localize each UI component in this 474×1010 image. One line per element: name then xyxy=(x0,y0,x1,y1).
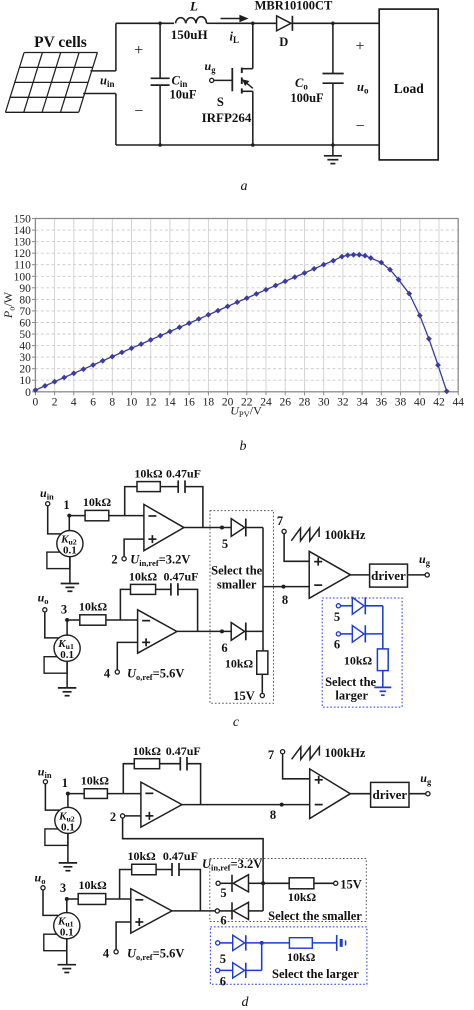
svg-text:6: 6 xyxy=(220,914,226,928)
svg-text:1: 1 xyxy=(62,776,68,790)
svg-text:0.47uF: 0.47uF xyxy=(163,849,198,863)
svg-text:0: 0 xyxy=(25,387,31,399)
svg-text:80: 80 xyxy=(19,294,31,306)
svg-text:28: 28 xyxy=(299,396,311,408)
svg-text:34: 34 xyxy=(356,396,368,408)
svg-text:40: 40 xyxy=(414,396,426,408)
svg-text:Select the: Select the xyxy=(325,675,376,689)
svg-text:D: D xyxy=(279,35,288,49)
svg-text:30: 30 xyxy=(19,352,31,364)
svg-text:Co: Co xyxy=(295,76,308,92)
svg-text:ug: ug xyxy=(420,771,432,787)
svg-text:24: 24 xyxy=(260,396,272,408)
svg-text:150: 150 xyxy=(14,214,32,226)
svg-text:0.47uF: 0.47uF xyxy=(166,744,201,758)
svg-text:6: 6 xyxy=(220,975,226,989)
svg-text:−: − xyxy=(355,118,364,135)
svg-text:110: 110 xyxy=(14,260,31,272)
svg-text:2: 2 xyxy=(111,553,117,567)
svg-text:90: 90 xyxy=(19,283,31,295)
svg-text:0.1: 0.1 xyxy=(61,821,75,833)
svg-text:0: 0 xyxy=(33,396,39,408)
svg-text:0.1: 0.1 xyxy=(63,545,77,557)
svg-text:10kΩ: 10kΩ xyxy=(288,890,317,904)
svg-text:ug: ug xyxy=(205,59,217,75)
svg-text:10kΩ: 10kΩ xyxy=(133,744,162,758)
svg-text:5: 5 xyxy=(334,610,340,624)
svg-text:10uF: 10uF xyxy=(169,88,196,102)
svg-text:c: c xyxy=(233,715,240,730)
svg-text:8: 8 xyxy=(270,808,276,822)
svg-text:2: 2 xyxy=(52,396,58,408)
svg-text:50: 50 xyxy=(19,329,31,341)
svg-text:IRFP264: IRFP264 xyxy=(202,110,252,125)
svg-text:driver: driver xyxy=(372,787,407,802)
svg-text:Uo,ref=5.6V: Uo,ref=5.6V xyxy=(127,946,184,962)
svg-text:0.1: 0.1 xyxy=(60,649,74,661)
svg-text:+: + xyxy=(134,42,143,59)
svg-text:0.47uF: 0.47uF xyxy=(163,570,198,584)
svg-text:44: 44 xyxy=(452,396,464,408)
svg-text:5: 5 xyxy=(220,952,226,966)
svg-text:130: 130 xyxy=(14,237,32,249)
svg-text:4: 4 xyxy=(104,667,111,681)
svg-text:70: 70 xyxy=(19,306,31,318)
svg-text:30: 30 xyxy=(318,396,330,408)
svg-text:14: 14 xyxy=(164,396,176,408)
svg-text:+: + xyxy=(355,38,364,55)
svg-text:10: 10 xyxy=(19,375,31,387)
svg-text:Select the: Select the xyxy=(211,564,262,578)
svg-text:15V: 15V xyxy=(233,689,255,703)
svg-text:5: 5 xyxy=(220,886,226,900)
svg-text:ug: ug xyxy=(419,552,431,568)
svg-text:−: − xyxy=(134,103,143,120)
svg-text:42: 42 xyxy=(433,396,445,408)
svg-text:10kΩ: 10kΩ xyxy=(81,774,110,788)
svg-text:4: 4 xyxy=(71,396,77,408)
svg-text:3: 3 xyxy=(61,603,67,617)
svg-text:uo: uo xyxy=(357,80,369,96)
svg-text:0.1: 0.1 xyxy=(60,927,74,939)
svg-text:26: 26 xyxy=(279,396,291,408)
svg-text:b: b xyxy=(240,439,247,454)
svg-text:100: 100 xyxy=(14,271,32,283)
svg-text:120: 120 xyxy=(14,248,32,260)
svg-text:d: d xyxy=(242,995,250,1010)
svg-text:5: 5 xyxy=(222,537,228,551)
svg-text:Uo,ref=5.6V: Uo,ref=5.6V xyxy=(127,667,184,683)
svg-text:Select the smaller: Select the smaller xyxy=(268,909,362,923)
svg-text:Uin,ref=3.2V: Uin,ref=3.2V xyxy=(202,857,262,873)
svg-text:10kΩ: 10kΩ xyxy=(78,878,107,892)
svg-text:uo: uo xyxy=(38,591,49,607)
svg-text:150uH: 150uH xyxy=(171,27,208,42)
svg-text:Select the larger: Select the larger xyxy=(272,967,359,981)
svg-text:L: L xyxy=(189,0,198,14)
svg-text:S: S xyxy=(217,95,224,109)
svg-text:36: 36 xyxy=(376,396,388,408)
svg-text:Load: Load xyxy=(394,81,425,96)
svg-text:100kHz: 100kHz xyxy=(325,746,366,760)
svg-text:Uin,ref=3.2V: Uin,ref=3.2V xyxy=(130,553,190,569)
svg-text:32: 32 xyxy=(337,396,349,408)
svg-text:100kHz: 100kHz xyxy=(325,528,366,542)
svg-text:10kΩ: 10kΩ xyxy=(225,657,254,671)
svg-text:12: 12 xyxy=(145,396,157,408)
svg-text:10: 10 xyxy=(126,396,138,408)
svg-text:10kΩ: 10kΩ xyxy=(79,600,108,614)
svg-text:10kΩ: 10kΩ xyxy=(127,849,156,863)
svg-text:10kΩ: 10kΩ xyxy=(83,495,112,509)
svg-text:iL: iL xyxy=(230,30,240,46)
svg-text:6: 6 xyxy=(334,638,340,652)
svg-text:8: 8 xyxy=(109,396,115,408)
svg-text:uin: uin xyxy=(100,74,114,90)
svg-text:16: 16 xyxy=(183,396,195,408)
svg-text:7: 7 xyxy=(268,748,274,762)
svg-text:2: 2 xyxy=(110,810,116,824)
svg-text:15V: 15V xyxy=(340,878,362,892)
svg-text:10kΩ: 10kΩ xyxy=(129,570,158,584)
svg-text:140: 140 xyxy=(14,225,32,237)
svg-text:10kΩ: 10kΩ xyxy=(287,950,316,964)
svg-text:8: 8 xyxy=(282,593,288,607)
svg-text:MBR10100CT: MBR10100CT xyxy=(255,0,333,13)
svg-text:40: 40 xyxy=(19,341,31,353)
svg-text:10kΩ: 10kΩ xyxy=(344,654,373,668)
svg-text:18: 18 xyxy=(203,396,215,408)
svg-text:a: a xyxy=(241,179,248,194)
svg-text:uin: uin xyxy=(40,486,54,502)
svg-text:Po/W: Po/W xyxy=(1,291,17,319)
svg-text:1: 1 xyxy=(63,498,69,512)
svg-text:6: 6 xyxy=(221,641,227,655)
svg-text:smaller: smaller xyxy=(217,578,257,592)
svg-text:uo: uo xyxy=(35,871,46,887)
svg-text:3: 3 xyxy=(60,881,66,895)
svg-text:10kΩ: 10kΩ xyxy=(134,467,163,481)
svg-text:0.47uF: 0.47uF xyxy=(166,467,201,481)
svg-text:uin: uin xyxy=(38,765,52,781)
svg-text:20: 20 xyxy=(19,364,31,376)
svg-text:60: 60 xyxy=(19,318,31,330)
svg-text:6: 6 xyxy=(90,396,96,408)
svg-text:PV cells: PV cells xyxy=(34,34,87,51)
svg-text:7: 7 xyxy=(277,514,283,528)
svg-text:4: 4 xyxy=(103,946,110,960)
svg-text:larger: larger xyxy=(335,689,368,703)
svg-text:driver: driver xyxy=(371,568,406,583)
svg-text:38: 38 xyxy=(395,396,407,408)
svg-text:100uF: 100uF xyxy=(290,91,324,105)
